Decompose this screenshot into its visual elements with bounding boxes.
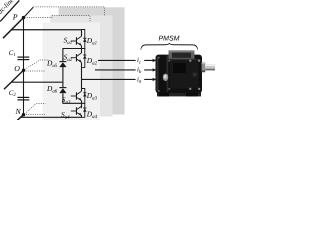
node O dot [22,69,25,72]
arrowhead ic [153,59,157,62]
capacitor C2 [18,97,30,100]
switch S_a3 (IGBT) [71,91,82,101]
dc-line upper conductor [0,0,19,21]
clamp diode D_a6 [59,88,66,94]
switch S_a2 (IGBT) [71,53,82,63]
dashed N-link lower [26,113,46,115]
phase-a module panel (front) [43,22,101,120]
current label ib [136,66,145,75]
arrowhead ia [153,78,157,81]
switch S_a1 (IGBT) [71,36,82,46]
wire O branch to clamp diodes [11,81,63,83]
brace over motor [141,43,199,50]
switch S_a4 (IGBT) [71,106,82,116]
svg-text:O: O [14,64,20,73]
motor shaft [202,62,215,72]
current label ia [136,75,145,84]
dashed O-link lower [26,70,46,72]
diode D_a2 (antiparallel) [82,49,87,68]
dc-line P conductor (diagonal through P) [3,18,24,39]
dc-line N conductor (diagonal below N) [16,115,24,122]
phase-b output wire [95,69,153,71]
wire P branch to leg top [11,29,82,31]
leg main axis wire segments [81,30,83,118]
svg-text:P: P [12,13,18,22]
wire N branch to leg bottom [21,116,82,118]
svg-text:N: N [15,107,22,116]
phase-a output wire [82,78,153,80]
diode D_a3 (antiparallel) [82,89,87,104]
dc bus vertical wire P to N [23,18,25,116]
diode D_a4 (antiparallel) [82,103,87,117]
phase-c module panel (back) [59,7,125,114]
dashed O-link upper (to phase-b) [25,60,49,70]
phase-c output wire [98,59,153,61]
capacitor C1 [18,57,30,60]
dashed N-link upper [25,104,46,114]
dc-line O conductor (diagonal below O) [4,70,24,89]
dashed P-link to phase-c panel [33,7,104,16]
PMSM motor body [156,50,203,96]
dashed P-link to phase-b panel [25,16,91,23]
diode D_a1 (antiparallel) [82,30,87,49]
node P dot [22,16,25,19]
clamp diode D_a5 [59,62,66,68]
current label ic [136,56,145,65]
node N dot [22,113,25,116]
clamp diode branch wires [63,49,82,62]
svg-text:PMSM: PMSM [159,36,180,43]
arrowhead ib [153,68,157,71]
phase-b module panel (middle) [50,16,113,117]
